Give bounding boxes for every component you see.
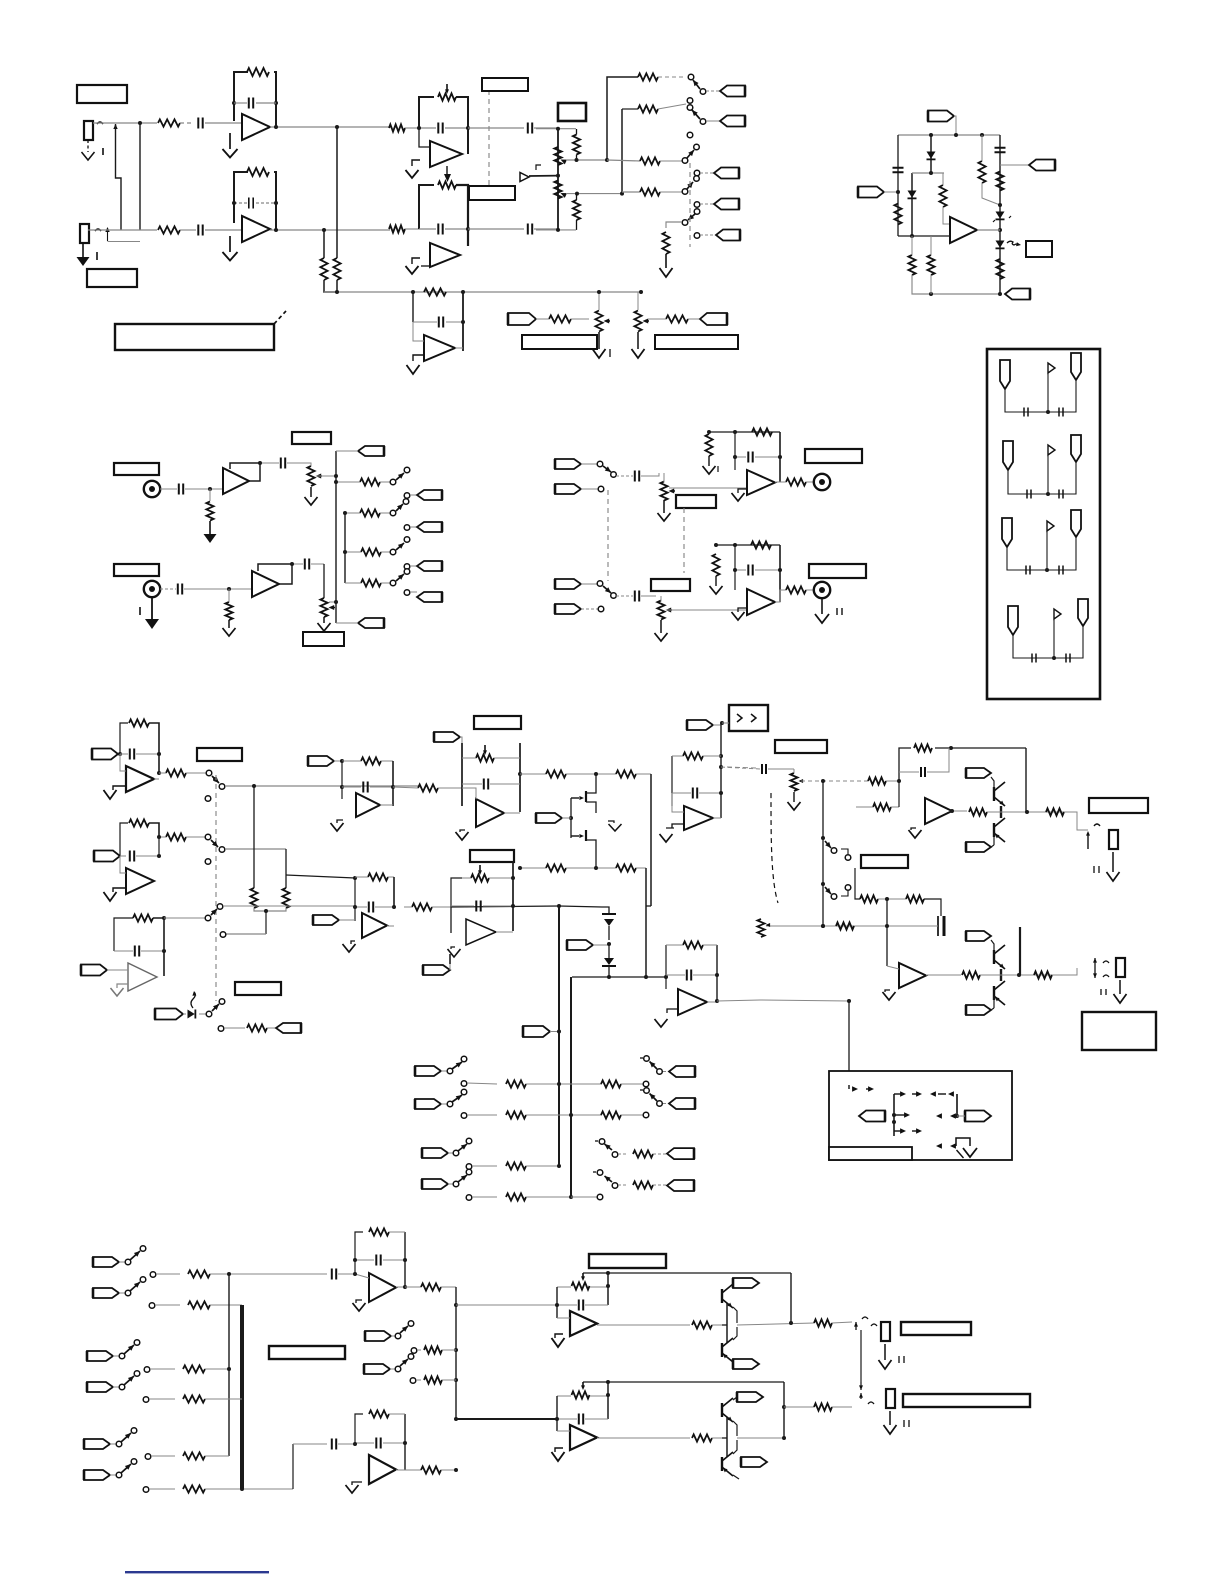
ground U16: [883, 990, 896, 1000]
FET Q4: [602, 945, 616, 977]
wire: [456, 1418, 557, 1420]
op-amp U18: [369, 1455, 396, 1484]
resistor U6 fb: [752, 428, 772, 435]
wire U1B out: [270, 228, 390, 232]
pot P5: [306, 463, 322, 486]
op-amp U5A: [223, 468, 249, 494]
capacitor: [417, 123, 470, 134]
resistor: [962, 971, 980, 978]
ground U9: [104, 888, 127, 901]
wire top bus: [898, 133, 1000, 137]
resistor: [159, 769, 206, 776]
row3: [466, 1162, 561, 1169]
op-amp U22: [678, 989, 707, 1015]
label box: [1089, 798, 1148, 813]
resistor U22 fb: [666, 941, 717, 948]
resistor U11 fb: [342, 757, 393, 764]
ground U1A: [223, 133, 238, 158]
dashed out: [727, 767, 756, 768]
wire: [164, 917, 205, 919]
label box: [589, 1254, 666, 1268]
jack J1: [84, 121, 93, 140]
capacitor U18: [353, 1438, 407, 1449]
transistor Q5: [991, 777, 1005, 806]
dashed: [683, 508, 685, 573]
circle: [219, 784, 225, 790]
bus bar thick: [240, 1305, 244, 1489]
op-amp U13: [476, 799, 504, 827]
op-amp U17 fb: [355, 1228, 405, 1287]
wire: [832, 1406, 852, 1408]
wire: [180, 122, 192, 124]
circle: [205, 859, 211, 865]
row4: [466, 1193, 603, 1200]
capacitor: [160, 484, 223, 495]
switch: [390, 569, 410, 586]
wire: [324, 280, 337, 292]
wire: [860, 1330, 862, 1382]
circle: [841, 849, 851, 860]
wire U1A fb right: [232, 72, 278, 127]
node: [977, 228, 1002, 232]
resistor U7 fb: [751, 541, 771, 548]
connector: [966, 931, 991, 941]
wire: [607, 77, 638, 161]
capacitor U1B fb: [232, 198, 278, 209]
op-amp U20: [570, 1425, 597, 1450]
switch: [206, 999, 225, 1017]
ground U8: [104, 786, 127, 799]
ground U2B: [406, 258, 430, 274]
wire out: [713, 817, 721, 819]
wire out: [597, 1324, 690, 1326]
capacitor U1A fb: [234, 98, 276, 109]
wire: [897, 135, 899, 236]
op-amp U5B: [252, 571, 279, 597]
jack J2 switch contact: [95, 227, 140, 242]
resistor: [868, 777, 886, 784]
wire: [149, 723, 159, 773]
wire: [784, 1406, 814, 1408]
wire: [557, 1430, 570, 1432]
capacitor: [733, 452, 782, 463]
resistor: [692, 1434, 712, 1441]
patch bracket L: [894, 1091, 922, 1136]
capacitor U21: [672, 788, 723, 799]
ground: [593, 332, 611, 358]
jack sw2: [859, 1382, 874, 1404]
resistor U8 fb: [129, 719, 149, 726]
op-amp U3: [950, 217, 977, 243]
row: [411, 1346, 456, 1353]
switch: [821, 882, 837, 899]
transistor Q9: [722, 1283, 737, 1323]
ground U11: [331, 820, 344, 831]
resistor: [616, 864, 636, 871]
wire wiper1: [566, 158, 609, 162]
ground: [77, 243, 98, 266]
DIN box: [987, 349, 1100, 699]
capacitor U20: [555, 1414, 608, 1425]
wire bottom: [912, 275, 1000, 296]
wire vertical: [557, 129, 559, 230]
wire fb left: [419, 185, 434, 229]
wire: [706, 120, 720, 122]
row5: [150, 1269, 355, 1280]
connector: [94, 851, 126, 862]
op-amp U7: [747, 589, 775, 615]
diode D1: [908, 173, 917, 236]
capacitor: [528, 224, 532, 235]
connector: [555, 579, 597, 589]
resistor: [908, 236, 915, 275]
switch: [205, 834, 218, 847]
switch S1: [688, 74, 706, 94]
wire fb left: [419, 97, 434, 128]
wire: [557, 1382, 608, 1431]
row8: [143, 1395, 242, 1402]
connector: [966, 842, 994, 852]
trimmer: [557, 1382, 610, 1399]
resistor: [996, 259, 1003, 279]
connector: [737, 1392, 763, 1402]
wire: [116, 124, 122, 230]
patch box: [829, 1071, 1012, 1160]
connector: [700, 313, 727, 325]
switch in1: [415, 1056, 467, 1076]
ground: [632, 332, 645, 358]
switch: [390, 499, 409, 516]
ground: [660, 254, 673, 277]
connector: [741, 1457, 767, 1467]
jack out1: [1086, 824, 1100, 849]
wire: [316, 474, 338, 478]
ground: [223, 620, 236, 636]
label box: [303, 632, 344, 646]
resistor: [836, 922, 854, 929]
connector row: [218, 1023, 301, 1033]
label box: [861, 855, 908, 868]
node: [998, 203, 1002, 207]
resistor: [334, 478, 390, 485]
resistor: [906, 895, 924, 902]
FET Q2: [571, 820, 596, 868]
op-amp U22 fb: [664, 945, 717, 1001]
patch right arrows2: [936, 1113, 959, 1118]
wire: [557, 1273, 608, 1318]
wire: [329, 600, 338, 604]
switch in3: [422, 1138, 472, 1158]
wire: [114, 918, 164, 976]
resistor: [421, 1283, 456, 1290]
ground: [318, 617, 331, 631]
capacitor U12: [353, 902, 396, 913]
patch arrows: [849, 1085, 874, 1092]
ground U18: [346, 1482, 363, 1493]
switch: [597, 581, 616, 599]
switch out3: [595, 1139, 694, 1159]
capacitor: [616, 471, 659, 482]
wire out: [950, 809, 967, 813]
diode D3 zener: [993, 212, 1011, 223]
resistor: [712, 543, 719, 576]
wire out node: [737, 1273, 814, 1325]
trimmer R-fb: [438, 166, 456, 189]
wire fb top: [583, 1380, 784, 1384]
wire out: [396, 1285, 421, 1289]
resistor: [814, 1319, 832, 1326]
op-amp U1B: [242, 216, 270, 242]
wire fb top: [709, 430, 780, 434]
switch in7: [87, 1340, 140, 1361]
pot P10: [757, 919, 770, 937]
connector: [404, 561, 442, 571]
trimmer: [557, 1273, 610, 1290]
wire out: [154, 771, 161, 779]
wire: [534, 127, 557, 129]
wire U1B fb right: [274, 172, 276, 230]
jack out2: [1093, 958, 1109, 978]
resistor: [389, 124, 405, 131]
dashed link: [482, 78, 528, 185]
jack rect: [1109, 830, 1118, 849]
transistor Q8: [994, 981, 1005, 1008]
wire out: [707, 999, 719, 1003]
op-amp U4: [424, 335, 455, 361]
ground arrow: [520, 165, 560, 182]
op-amp U15: [925, 798, 952, 824]
wire: [636, 868, 646, 977]
wire: [636, 774, 651, 906]
op-amp U8: [126, 766, 154, 792]
resistor: [421, 1466, 458, 1473]
wire bus2: [225, 849, 286, 888]
wire: [405, 127, 419, 129]
ground U19: [552, 1334, 565, 1347]
label box: [655, 335, 738, 349]
capacitor U4 fb: [413, 317, 465, 328]
connector: [733, 1278, 759, 1288]
switch out1: [640, 1056, 695, 1077]
wire: [120, 856, 126, 873]
op-amp U8 fb: [120, 723, 128, 754]
big label box: [115, 311, 286, 350]
wire riser2: [344, 513, 346, 583]
FET Q1: [571, 774, 596, 813]
switch in6: [93, 1277, 146, 1298]
label box: [77, 85, 127, 103]
connector: [555, 484, 604, 494]
resistor Rv2: [333, 258, 340, 280]
wire: [607, 160, 640, 161]
connector: [966, 1005, 994, 1015]
label box: [775, 740, 827, 753]
op-amp U17: [369, 1273, 396, 1302]
capacitor: [733, 565, 782, 576]
wire fb right: [456, 185, 468, 246]
label box: [1082, 1012, 1156, 1050]
resistor: [158, 226, 180, 233]
DIN group 4: [1008, 599, 1088, 663]
label box: [469, 186, 515, 200]
capacitor: [995, 148, 1006, 152]
wire out: [387, 925, 394, 927]
wire: [832, 1322, 852, 1323]
wire fb: [258, 564, 292, 584]
transistor Q6: [994, 818, 1005, 845]
ground U17: [353, 1300, 366, 1311]
wire: [566, 866, 616, 870]
connector: [92, 749, 126, 760]
switch in10: [84, 1459, 137, 1480]
wire: [462, 788, 476, 799]
dashed bus: [689, 163, 691, 247]
resistor: [640, 157, 682, 164]
resistor: [404, 903, 451, 910]
op-amp U4 fb: [413, 292, 463, 351]
resistor in2: [856, 781, 899, 811]
wire: [886, 899, 888, 966]
wire fb top: [583, 1271, 791, 1275]
op-amp U14: [466, 919, 496, 945]
wire out node: [737, 1382, 786, 1440]
connector: [859, 1111, 885, 1122]
resistor: [573, 129, 580, 160]
resistor: [1046, 808, 1064, 815]
ground U12: [343, 941, 356, 952]
pot P8: [657, 596, 672, 620]
label box: [474, 716, 521, 729]
op-amp U2B: [430, 243, 460, 267]
ground: [879, 1344, 905, 1369]
capacitor: [198, 118, 202, 129]
connector: [404, 490, 442, 500]
SIP box: [722, 705, 768, 731]
switch: [205, 904, 223, 921]
pot P6: [320, 598, 335, 617]
wire: [712, 1437, 722, 1439]
resistor U1A fb: [247, 68, 269, 76]
switch: [390, 467, 410, 485]
label box: [676, 495, 716, 508]
wire: [878, 897, 906, 901]
resistor: [157, 833, 205, 840]
label box: [558, 103, 586, 121]
connector: [434, 732, 462, 743]
resistor: [343, 509, 390, 516]
op-amp U11: [356, 793, 380, 817]
op-amp U10: [128, 963, 157, 991]
wire: [886, 779, 901, 783]
resistor: [662, 232, 669, 254]
switch: [206, 770, 219, 783]
wire: [999, 135, 1001, 294]
wire: [912, 171, 944, 175]
switch S2: [687, 98, 706, 125]
row: [410, 1376, 456, 1383]
switch in9: [84, 1428, 137, 1449]
resistor: [536, 315, 589, 322]
wire U1A fb left: [234, 72, 248, 121]
capacitor U9: [130, 837, 161, 862]
wire: [622, 109, 638, 194]
resistor: [250, 786, 257, 908]
node: [138, 121, 142, 125]
wire wiper2: [566, 192, 624, 196]
transistor Q12: [722, 1440, 739, 1479]
wire riser: [454, 1287, 458, 1421]
bus thin: [228, 1274, 230, 1456]
resistor: [640, 188, 682, 195]
connector: [404, 522, 442, 532]
pot P2: [554, 181, 567, 199]
switch in8: [87, 1371, 140, 1392]
switch out2: [640, 1088, 695, 1109]
wire: [558, 906, 560, 1166]
connector: [555, 604, 604, 614]
switch S4: [682, 176, 699, 195]
switch in5: [93, 1246, 146, 1267]
label box: [114, 463, 159, 475]
label box: [87, 269, 137, 287]
transistor Q7: [991, 940, 1005, 969]
op-amp U6: [747, 470, 775, 495]
connector: [966, 768, 991, 778]
wire: [712, 1324, 722, 1326]
wire: [735, 432, 780, 482]
resistor: [1034, 971, 1052, 978]
connector: [404, 590, 442, 602]
dashed bus: [215, 775, 217, 1001]
resistor: [692, 1321, 712, 1328]
resistor: [705, 430, 712, 456]
switch: [390, 537, 410, 555]
row9: [145, 1452, 229, 1459]
wire fb right: [456, 97, 468, 154]
wire: [735, 545, 780, 602]
capacitor: [893, 168, 904, 172]
resistor: [393, 784, 462, 791]
wire: [536, 127, 576, 131]
wire bus1: [225, 784, 420, 788]
connector: [536, 813, 571, 823]
label box: [522, 335, 597, 349]
connector: [508, 313, 536, 325]
connector VCC: [928, 111, 956, 136]
capacitor C-el: [938, 916, 944, 936]
wire riser: [335, 451, 337, 623]
jack RCA4: [814, 582, 830, 598]
spark arrow: [191, 991, 196, 1008]
resistor: [573, 194, 580, 230]
label box: [651, 579, 690, 591]
capacitor U17: [353, 1255, 407, 1266]
ground: [732, 489, 748, 501]
wire: [666, 609, 747, 611]
DIN group 3: [1002, 510, 1081, 575]
resistor: [225, 589, 232, 620]
wire out: [380, 804, 393, 806]
resistor: [969, 808, 987, 815]
wire out: [496, 931, 513, 933]
connector: [81, 965, 114, 976]
wire: [520, 773, 546, 775]
capacitor: [528, 123, 532, 134]
patch gnd arrows: [936, 1138, 977, 1158]
wire: [646, 905, 651, 907]
connector: [720, 116, 745, 127]
label box: [235, 982, 281, 995]
